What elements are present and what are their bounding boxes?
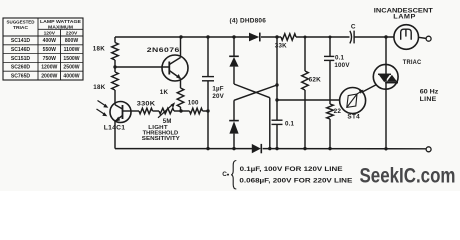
wire: C1 vertical line — [207, 37, 209, 149]
terminal: 60Hz line top — [426, 36, 431, 41]
svg-text:0.1µF, 100V FOR 120V LINE: 0.1µF, 100V FOR 120V LINE — [240, 166, 344, 173]
note: capacitor C value — [222, 161, 353, 190]
svg-text:100: 100 — [188, 100, 199, 107]
svg-text:LAMP: LAMP — [393, 14, 416, 21]
wire: bridge left mid + crossover diagonals — [234, 67, 277, 149]
wire: trigger wire to ST4 — [277, 99, 340, 101]
terminal: 60Hz line bottom — [426, 147, 431, 152]
svg-text:750W: 750W — [43, 56, 56, 62]
capacitor C1 1uF 20V — [202, 77, 225, 100]
svg-text:550W: 550W — [43, 47, 56, 53]
svg-text:SUGGESTED: SUGGESTED — [7, 20, 35, 26]
svg-text:62K: 62K — [309, 77, 322, 84]
svg-text:(4) DHD806: (4) DHD806 — [230, 17, 267, 24]
svg-text:1100W: 1100W — [64, 47, 80, 53]
svg-text:SC765D: SC765D — [11, 73, 31, 79]
resistor R7 33K — [275, 34, 296, 50]
node: crossover joins line A — [275, 83, 278, 86]
label: 60 Hz LINE — [420, 89, 439, 103]
parts table: suggested triac / lamp wattage maximum — [3, 18, 83, 80]
svg-text:18K: 18K — [93, 84, 105, 91]
resistor R9 22 — [327, 104, 342, 119]
svg-text:0.1: 0.1 — [335, 55, 345, 62]
node: trigger tap on line A — [275, 98, 278, 101]
diode D3 (bridge left lower, pointing up) — [229, 121, 239, 149]
svg-text:33K: 33K — [275, 43, 287, 50]
svg-text:220V: 220V — [66, 31, 78, 37]
svg-text:SC151D: SC151D — [11, 56, 31, 62]
svg-text:2500W: 2500W — [63, 65, 79, 71]
svg-text:0.068µF, 200V FOR 220V LINE: 0.068µF, 200V FOR 220V LINE — [239, 177, 353, 184]
node: C1 line on top bus — [206, 35, 209, 38]
capacitor C2 "C" (line coupling) — [350, 24, 356, 44]
resistor R2 18K (lower) — [93, 72, 118, 91]
svg-text:4000W: 4000W — [63, 73, 79, 79]
potentiometer R5 5M light threshold sensitivity — [142, 102, 180, 142]
svg-text:SENSITIVITY: SENSITIVITY — [142, 136, 180, 142]
svg-text:TRIAC: TRIAC — [403, 59, 422, 66]
svg-text:2N6076: 2N6076 — [147, 47, 180, 54]
svg-text:400W: 400W — [43, 38, 56, 44]
wire: bottom return bus — [115, 148, 426, 150]
node: Q1 collector on bus — [179, 35, 182, 38]
diode D4 (horizontal, bottom bus) — [252, 144, 261, 153]
wire: line A (AC node) vertical — [276, 37, 278, 149]
svg-text:22: 22 — [334, 108, 342, 115]
svg-text:100V: 100V — [334, 62, 350, 69]
svg-text:SC260D: SC260D — [11, 65, 31, 71]
node: snubber line on top bus — [329, 36, 332, 39]
light arrows into L14C1 — [97, 101, 109, 117]
svg-text:C: C — [222, 171, 227, 178]
trigger device ST4 (diac) — [340, 88, 366, 121]
svg-text:SeekIC.com: SeekIC.com — [360, 164, 456, 188]
svg-text:SC141D: SC141D — [11, 38, 31, 44]
capacitor C3 0.1 100V — [324, 55, 350, 70]
svg-text:TRIAC: TRIAC — [13, 25, 29, 31]
svg-text:C: C — [351, 24, 356, 31]
node: mid wire to C1 line — [206, 109, 209, 112]
triac Q3 — [373, 37, 421, 149]
wire: Q2 emitter down to bottom bus — [114, 122, 116, 149]
lamp: incandescent lamp — [374, 7, 433, 49]
svg-text:1500W: 1500W — [63, 56, 79, 62]
svg-text:LINE: LINE — [420, 96, 437, 103]
wire: 62K vertical line — [304, 37, 306, 149]
phototransistor Q2 L14C1 — [104, 102, 131, 132]
node: 1K / mid wire junction — [179, 109, 182, 112]
svg-text:0.1: 0.1 — [285, 120, 295, 127]
node: triac/lamp junction on top bus — [384, 35, 387, 38]
node: line A on top bus — [275, 35, 278, 38]
svg-text:1200W: 1200W — [41, 65, 57, 71]
wire: lamp to line terminal — [419, 37, 427, 38]
nodes on bottom bus — [206, 147, 387, 151]
wire: top supply bus — [115, 36, 394, 38]
capacitor C4 0.1 — [272, 120, 295, 127]
node: base divider junction — [113, 65, 116, 68]
wire: bridge left vertical upper — [233, 37, 235, 56]
svg-text:60 Hz: 60 Hz — [420, 89, 439, 96]
svg-text:ST4: ST4 — [347, 114, 360, 121]
transistor Q1 2N6076 — [147, 37, 188, 81]
resistor R4 330K — [137, 101, 156, 114]
wire: gate from ST4 to triac — [362, 85, 376, 92]
svg-text:2000W: 2000W — [41, 73, 57, 79]
svg-text:MAXIMUM: MAXIMUM — [48, 24, 73, 29]
resistor R3 1K — [160, 88, 184, 111]
diode D2 (bridge left upper, pointing up) — [229, 56, 239, 66]
wire: base of Q1 — [115, 66, 169, 68]
wire: threshold network (mid) — [123, 110, 208, 112]
svg-text:120V: 120V — [44, 31, 56, 37]
svg-text:20V: 20V — [212, 93, 224, 100]
wire: left vertical branch (18K divider) — [114, 37, 116, 104]
resistor R1 18K (upper) — [93, 43, 119, 61]
resistor R8 62K — [302, 71, 321, 90]
diode D1 (horizontal, top bus) — [249, 33, 260, 42]
svg-text:18K: 18K — [93, 46, 105, 53]
resistor R6 100 — [188, 100, 203, 114]
wire: snubber vertical line — [329, 37, 331, 149]
svg-text:1µF: 1µF — [212, 86, 223, 93]
svg-text:330K: 330K — [137, 101, 156, 108]
node: bridge left on top bus — [232, 35, 235, 38]
wire: Q1 emitter to 1K — [180, 79, 182, 89]
node: 62K line on top bus — [304, 36, 307, 39]
svg-text:SC146D: SC146D — [11, 47, 31, 53]
svg-text:1K: 1K — [160, 89, 169, 96]
svg-text:800W: 800W — [65, 38, 78, 44]
